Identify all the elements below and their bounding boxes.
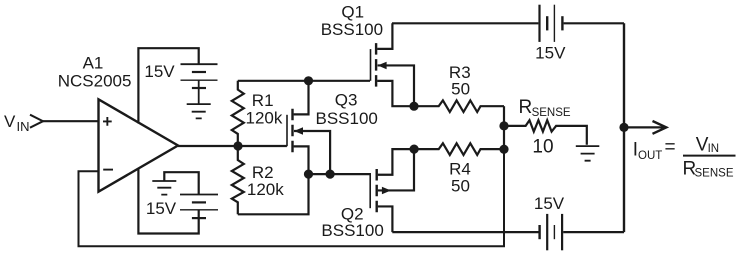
battery B3 15V value label xyxy=(535,44,566,63)
wire top rail Q1 drain to battery B3 xyxy=(392,22,538,24)
node junction dot top rail Q3 drain xyxy=(304,76,313,85)
resistor RSENSE 10 xyxy=(504,120,587,145)
transistor Q1 source tap xyxy=(377,81,414,106)
node IOUT formula xyxy=(633,134,734,179)
transistor Q1 gate bar xyxy=(370,49,372,81)
battery B1 15V positive supply xyxy=(181,63,218,65)
node junction dot Q3 body xyxy=(326,170,335,179)
transistor Q1 drain tap xyxy=(377,23,392,49)
ground below battery B1 xyxy=(187,104,211,118)
battery B1 15V value label xyxy=(144,62,175,81)
svg-text:NCS2005: NCS2005 xyxy=(58,72,132,91)
transistor Q2 drain tap xyxy=(378,206,393,232)
op-amp A1 plus symbol xyxy=(103,117,112,126)
resistor R3 label xyxy=(449,63,471,99)
svg-text:120k: 120k xyxy=(246,109,283,128)
svg-text:15V: 15V xyxy=(535,44,566,63)
op-amp A1 label xyxy=(58,54,132,91)
node junction dot RSENSE left xyxy=(499,121,508,130)
resistor R1 120k xyxy=(232,81,244,146)
node junction dot Q3 source xyxy=(304,170,313,179)
transistor Q2 gate bar xyxy=(369,173,371,208)
svg-text:A1: A1 xyxy=(83,54,104,73)
svg-text:Q3: Q3 xyxy=(335,90,358,109)
ground for RSENSE xyxy=(576,146,600,161)
transistor Q2 channel xyxy=(376,169,378,212)
svg-text:R2: R2 xyxy=(252,163,274,182)
wire Q3 source node to Q2 gate xyxy=(309,173,371,175)
wire R2 bottom to Q3 source node xyxy=(238,174,309,214)
wire op-amp V+ pin up to battery B1 xyxy=(138,48,198,123)
svg-text:IN: IN xyxy=(17,119,30,134)
wire battery B1 to ground xyxy=(198,80,200,104)
resistor R4 label xyxy=(449,160,471,196)
wire feedback from op-amp - input to node RSENSE left xyxy=(79,149,505,246)
battery B4 15V value label xyxy=(534,194,565,213)
node junction dot op-amp output R1 R2 xyxy=(233,141,242,150)
resistor R3 50 xyxy=(414,100,504,112)
svg-text:BSS100: BSS100 xyxy=(321,20,383,39)
transistor Q1 body arrow xyxy=(378,65,414,106)
resistor R2 120k xyxy=(232,146,244,214)
svg-text:10: 10 xyxy=(532,136,553,157)
wire Q3 drain up to top rail xyxy=(294,81,309,115)
resistor R1 label xyxy=(246,91,283,128)
node VIN input chevron xyxy=(30,115,43,128)
wire battery B3 to right rail xyxy=(564,22,624,24)
svg-text:BSS100: BSS100 xyxy=(316,109,378,128)
wire right rail xyxy=(623,23,625,232)
svg-text:120k: 120k xyxy=(247,180,284,199)
transistor Q3 body arrow xyxy=(294,131,330,174)
resistor RSENSE label xyxy=(519,97,571,157)
transistor Q3 gate bar xyxy=(286,115,288,146)
svg-text:IN: IN xyxy=(708,143,720,155)
svg-text:OUT: OUT xyxy=(638,150,662,162)
resistor R4 50 xyxy=(414,143,504,155)
svg-text:15V: 15V xyxy=(534,194,565,213)
ground for battery B2 xyxy=(152,181,176,195)
transistor Q1 label xyxy=(321,2,383,39)
svg-text:V: V xyxy=(4,112,16,131)
transistor Q3 source tap xyxy=(294,146,309,174)
battery B2 15V negative supply xyxy=(180,194,218,196)
wire op-amp output to Q3 gate xyxy=(178,145,287,147)
battery B4 15V bottom xyxy=(538,225,540,239)
wire IOUT arrow xyxy=(624,126,664,128)
svg-text:R1: R1 xyxy=(252,91,274,110)
battery B3 15V top xyxy=(538,5,540,42)
svg-text:50: 50 xyxy=(451,80,470,99)
node VIN input label xyxy=(4,112,30,134)
node junction dot Q2 body R4 xyxy=(410,145,419,154)
wire ground to battery B2 top xyxy=(164,172,198,194)
resistor R2 label xyxy=(247,163,284,199)
svg-text:BSS100: BSS100 xyxy=(321,221,383,240)
op-amp U1 A1 NCS2005 triangle xyxy=(99,99,179,191)
wire battery B4 to right rail xyxy=(563,231,624,233)
node junction dot R4 right xyxy=(499,145,508,154)
transistor Q2 body arrow xyxy=(378,149,414,190)
op-amp A1 minus symbol xyxy=(103,169,113,171)
wire junction column R3 R4 RSENSE xyxy=(503,106,505,149)
svg-text:=: = xyxy=(665,137,676,158)
svg-text:50: 50 xyxy=(451,177,470,196)
svg-text:15V: 15V xyxy=(144,62,175,81)
transistor Q3 label xyxy=(316,90,378,128)
transistor Q2 label xyxy=(321,204,383,239)
transistor Q1 channel xyxy=(375,43,377,87)
wire VIN to op-amp + input xyxy=(43,120,99,122)
battery B2 15V value label xyxy=(146,199,177,218)
svg-text:R: R xyxy=(519,97,533,118)
wire battery B2 to op-amp V- pin xyxy=(138,169,198,234)
svg-text:Q1: Q1 xyxy=(341,2,364,21)
node junction dot Q1 source R3 xyxy=(409,102,418,111)
svg-text:15V: 15V xyxy=(146,199,177,218)
node junction dot output arrow xyxy=(619,123,628,132)
svg-text:SENSE: SENSE xyxy=(532,107,571,119)
transistor Q3 channel xyxy=(291,109,293,153)
transistor Q2 source tap xyxy=(378,149,414,175)
wire fraction bar IOUT formula xyxy=(683,155,736,157)
svg-text:SENSE: SENSE xyxy=(695,168,734,180)
wire bottom rail Q2 drain to battery B4 xyxy=(392,231,538,233)
wire top rail R1 to Q1 gate xyxy=(238,80,370,82)
